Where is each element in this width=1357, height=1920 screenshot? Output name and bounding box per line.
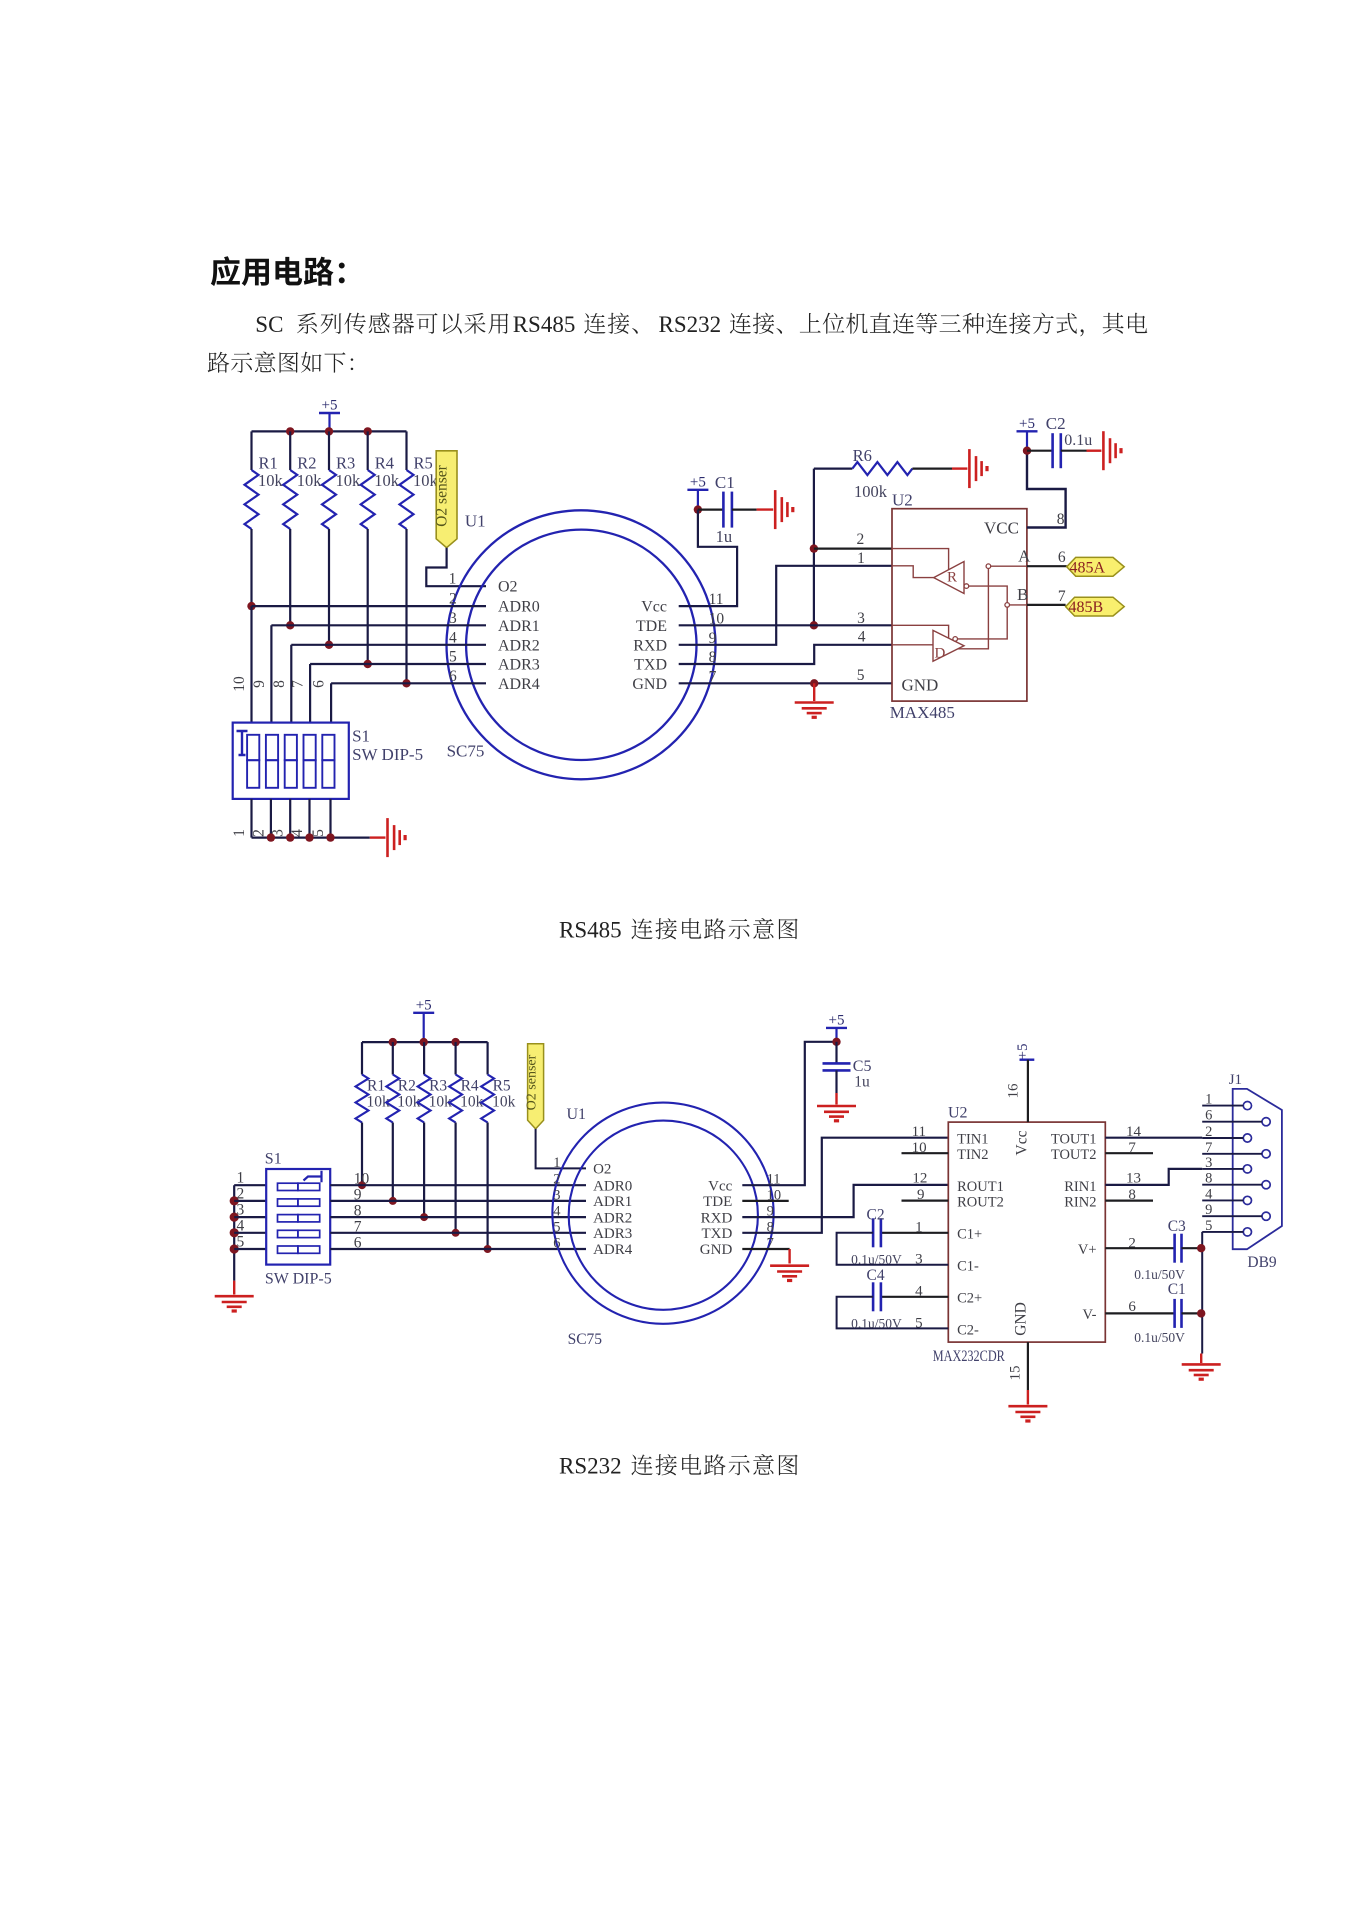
svg-text:2: 2 xyxy=(237,1185,245,1202)
pin labels U1 left xyxy=(498,579,540,693)
pin numbers U2 right xyxy=(1126,1124,1142,1315)
junction dot R5 to ADR4 row xyxy=(402,679,410,687)
svg-text:ADR4: ADR4 xyxy=(498,676,540,693)
resistor R2 10k xyxy=(283,431,322,625)
pin number 16 (rotated) xyxy=(1006,1083,1022,1099)
svg-text:U1: U1 xyxy=(567,1106,587,1123)
power +5 (top of RS485 pull-ups) xyxy=(319,398,340,432)
svg-text:10: 10 xyxy=(912,1140,927,1156)
svg-text:1: 1 xyxy=(1205,1092,1212,1108)
svg-text:R5: R5 xyxy=(493,1078,511,1095)
svg-text:O2: O2 xyxy=(498,579,518,596)
svg-text:+5: +5 xyxy=(829,1012,845,1028)
power +5 (C5) xyxy=(826,1012,847,1041)
svg-text:GND: GND xyxy=(1013,1302,1030,1336)
U2 GND label (rotated) xyxy=(1013,1302,1030,1336)
svg-text:SC: SC xyxy=(255,312,283,337)
wire U2 pin 15 to ground xyxy=(1027,1342,1029,1404)
svg-text:10k: 10k xyxy=(297,471,323,490)
svg-text:2: 2 xyxy=(857,531,865,548)
resistor R4 10k xyxy=(361,431,400,664)
svg-text:4: 4 xyxy=(858,628,866,645)
svg-text:C1-: C1- xyxy=(957,1259,979,1275)
label SW DIP-5 (RS232) xyxy=(265,1270,332,1287)
caption RS485 连接电路示意图 xyxy=(559,918,798,943)
pin numbers 11-7 (U1 right, RS232) xyxy=(767,1172,782,1252)
power +5 (C2) xyxy=(1017,416,1038,451)
U2 right pin labels xyxy=(1051,1132,1097,1324)
svg-text:SW DIP-5: SW DIP-5 xyxy=(352,745,423,764)
wire RXD to U2 ROUT1 (RS232) xyxy=(742,1185,948,1217)
svg-text:SC75: SC75 xyxy=(568,1331,603,1348)
capacitor C5 1u xyxy=(823,1042,872,1105)
designator U2 xyxy=(892,490,913,509)
switch S1 SW DIP-5 xyxy=(233,723,349,799)
paragraph line 1 xyxy=(255,312,1147,337)
U2 internal bubbles xyxy=(953,564,1010,641)
pin labels U1 left (RS232) xyxy=(593,1161,633,1258)
junction dot GND row xyxy=(810,679,818,687)
IC U1 sensor circle SC75 xyxy=(447,510,716,779)
wire GND row to U2 pin 5 xyxy=(679,682,892,684)
paragraph line 2 xyxy=(208,351,354,372)
svg-text:16: 16 xyxy=(1006,1083,1022,1099)
junction dot C1/+5 xyxy=(694,505,702,513)
svg-text:DB9: DB9 xyxy=(1247,1254,1277,1271)
svg-text:5: 5 xyxy=(857,667,865,684)
svg-text:R1: R1 xyxy=(259,454,278,473)
svg-text:ADR3: ADR3 xyxy=(593,1226,632,1242)
svg-text:5: 5 xyxy=(449,649,457,666)
junction dot R5 (RS232) xyxy=(484,1245,492,1253)
U2 internal wiring xyxy=(892,549,1027,649)
wire U2 pin A to 485A xyxy=(1027,549,1067,566)
wire +5 bus xyxy=(252,430,407,432)
svg-text:10k: 10k xyxy=(374,471,400,490)
svg-text:RXD: RXD xyxy=(633,637,667,654)
svg-text:TDE: TDE xyxy=(703,1194,732,1210)
ground (C3/C1) xyxy=(1182,1364,1221,1379)
svg-text:7: 7 xyxy=(1128,1140,1136,1156)
svg-text:3: 3 xyxy=(1205,1155,1212,1171)
svg-text:3: 3 xyxy=(857,610,865,627)
designator U2 (RS232) xyxy=(948,1105,968,1122)
svg-text:12: 12 xyxy=(912,1171,927,1187)
wires S1 bottom pins to ground bus xyxy=(252,799,331,838)
wire ground bus under S1 xyxy=(252,836,386,838)
capacitor C3 0.1u/50V xyxy=(1105,1218,1201,1282)
ground (U1 GND RS232) xyxy=(770,1266,809,1281)
wire U1 TDE stub (RS232) xyxy=(742,1200,788,1202)
svg-text:R: R xyxy=(947,570,957,586)
designator U1 xyxy=(465,512,486,531)
svg-text:6: 6 xyxy=(449,668,457,685)
wire U1 Vcc to +5 (RS232) xyxy=(742,1042,836,1185)
svg-text:1u: 1u xyxy=(716,527,733,546)
sensor flag O2 senser xyxy=(434,451,457,548)
pin number 15 (rotated) xyxy=(1008,1366,1024,1381)
svg-text:C2: C2 xyxy=(867,1207,885,1224)
port 485A xyxy=(1067,557,1125,576)
wire U2 TOUT1 to DB9 pin 2 xyxy=(1105,1137,1202,1139)
U2 left pin labels xyxy=(957,1132,1004,1339)
svg-text:ROUT2: ROUT2 xyxy=(957,1194,1004,1210)
svg-text:VCC: VCC xyxy=(984,519,1019,538)
wire U1 GND (RS232) xyxy=(742,1249,789,1264)
power +5 (U2 pin 16) xyxy=(1015,1044,1034,1060)
resistor R1 10k (RS232) xyxy=(356,1042,390,1185)
resistor R5 10k (RS232) xyxy=(481,1042,515,1249)
wire TXD to U2 pin 4 xyxy=(679,645,892,664)
svg-text:ADR2: ADR2 xyxy=(498,637,540,654)
wire U2 pin 8 to +5/C2 xyxy=(1027,451,1066,528)
svg-text:RIN1: RIN1 xyxy=(1064,1179,1096,1195)
svg-text:TOUT1: TOUT1 xyxy=(1051,1132,1097,1148)
wire DB9 pin5 / C3 / C1 to ground xyxy=(1201,1232,1202,1363)
heading 应用电路： xyxy=(211,256,345,286)
svg-text:9: 9 xyxy=(917,1187,925,1203)
svg-text:C2: C2 xyxy=(1046,414,1066,433)
sensor flag O2 senser (RS232) xyxy=(525,1044,544,1129)
svg-text:RIN2: RIN2 xyxy=(1064,1194,1096,1210)
resistor R3 10k xyxy=(322,431,361,644)
svg-text:10: 10 xyxy=(231,676,248,692)
svg-text:C3: C3 xyxy=(1168,1218,1186,1235)
svg-text:B: B xyxy=(1017,585,1028,604)
junction dot C2 xyxy=(1023,447,1031,455)
svg-text:9: 9 xyxy=(251,680,268,688)
svg-text:ADR3: ADR3 xyxy=(498,657,540,674)
svg-text:Vcc: Vcc xyxy=(1013,1130,1030,1155)
svg-text:C2-: C2- xyxy=(957,1322,979,1338)
svg-text:C1: C1 xyxy=(1168,1281,1186,1298)
wire U2 TOUT2 stub xyxy=(1105,1152,1153,1154)
svg-text:MAX485: MAX485 xyxy=(890,703,955,722)
svg-text:R2: R2 xyxy=(398,1078,416,1095)
svg-text:U2: U2 xyxy=(892,490,913,509)
svg-text:8: 8 xyxy=(271,680,288,688)
U2 internal receiver R triangle xyxy=(934,562,964,594)
svg-text:R4: R4 xyxy=(461,1078,479,1095)
svg-text:GND: GND xyxy=(902,676,939,695)
svg-text:14: 14 xyxy=(1126,1124,1142,1140)
wire O2 flag to pin 1 (RS232) xyxy=(536,1129,586,1169)
svg-text:1: 1 xyxy=(857,550,865,567)
svg-text:ADR1: ADR1 xyxy=(498,618,540,635)
wire RXD to U2 pin 1 xyxy=(679,566,892,645)
pin number 8 xyxy=(1057,511,1065,528)
svg-text:7: 7 xyxy=(1058,588,1066,605)
svg-text:RS485: RS485 xyxy=(513,312,576,337)
junction dots R6 vertical xyxy=(810,544,818,629)
svg-text:3: 3 xyxy=(553,1187,560,1203)
svg-text:TIN2: TIN2 xyxy=(957,1147,988,1163)
wire R6 to U2 pins 2,3 xyxy=(813,469,815,626)
svg-text:5: 5 xyxy=(237,1234,245,1251)
svg-text:11: 11 xyxy=(912,1124,926,1140)
svg-text:RXD: RXD xyxy=(701,1210,733,1226)
svg-text:SC75: SC75 xyxy=(447,742,485,761)
svg-text:1u: 1u xyxy=(854,1074,870,1091)
svg-text:RS485: RS485 xyxy=(559,918,622,943)
svg-text:TIN1: TIN1 xyxy=(957,1132,988,1148)
capacitor C2 0.1u xyxy=(1027,414,1101,468)
svg-text:C1+: C1+ xyxy=(957,1227,982,1243)
svg-text:2: 2 xyxy=(449,591,457,608)
wires DIP to U1 ADR rows (RS232) xyxy=(330,1185,586,1249)
svg-text:7: 7 xyxy=(1205,1140,1212,1156)
svg-text:C2+: C2+ xyxy=(957,1291,982,1307)
wire O2 sensor flag to pin 1 xyxy=(426,548,486,587)
svg-text:2: 2 xyxy=(553,1172,560,1188)
label SC75 (RS232) xyxy=(568,1331,603,1348)
capacitor C1 1u xyxy=(698,473,773,546)
svg-text:C5: C5 xyxy=(853,1058,872,1075)
resistor R5 10k xyxy=(400,431,439,683)
junction dot R1 to ADR0 row xyxy=(247,602,255,610)
pin number 1 (U1 O2) xyxy=(449,571,457,588)
capacitor C1 0.1u/50V (RS232) xyxy=(1105,1281,1201,1345)
pin numbers 10 9 8 7 6 (S1 top, rotated) xyxy=(231,676,328,692)
ground (C5) xyxy=(817,1106,856,1121)
wire S1 common bus (RS232) xyxy=(233,1185,235,1294)
junction dots C3/C1 xyxy=(1197,1244,1205,1318)
svg-text:ADR1: ADR1 xyxy=(593,1194,632,1210)
svg-text:+5: +5 xyxy=(1015,1044,1031,1060)
svg-text:3: 3 xyxy=(237,1202,245,1219)
svg-text:C4: C4 xyxy=(867,1267,885,1284)
svg-text:10k: 10k xyxy=(258,471,284,490)
wire ADR3 row xyxy=(310,663,486,665)
svg-text:9: 9 xyxy=(1205,1202,1212,1218)
svg-text:10k: 10k xyxy=(336,471,362,490)
IC U1 sensor circle SC75 (RS232) xyxy=(552,1103,773,1324)
port 485B xyxy=(1066,597,1125,616)
U2 internal driver D triangle xyxy=(933,630,964,661)
wire ADR1 row xyxy=(271,624,486,626)
svg-text:5: 5 xyxy=(1205,1218,1212,1234)
svg-text:1: 1 xyxy=(237,1170,245,1187)
resistor R1 10k xyxy=(245,431,284,606)
svg-text:3: 3 xyxy=(449,610,457,627)
svg-text:+5: +5 xyxy=(690,474,706,490)
svg-text:0.1u: 0.1u xyxy=(1064,432,1092,449)
svg-text:TXD: TXD xyxy=(701,1226,732,1242)
svg-text:J1: J1 xyxy=(1229,1072,1242,1088)
ground (C1) xyxy=(775,490,793,529)
svg-text:0.1u/50V: 0.1u/50V xyxy=(851,1252,902,1267)
capacitor C4 0.1u/50V xyxy=(837,1267,949,1331)
ground (S1 RS232) xyxy=(215,1296,254,1311)
wire U2 RIN2 stub xyxy=(1105,1199,1153,1201)
svg-text:6: 6 xyxy=(1058,549,1066,566)
wire ADR0 row xyxy=(252,605,487,607)
svg-text:C1: C1 xyxy=(715,473,735,492)
svg-text:S1: S1 xyxy=(352,726,370,745)
designator S1 (RS232) xyxy=(265,1150,282,1167)
svg-text:4: 4 xyxy=(237,1217,245,1234)
pin labels U2 (VCC, A, B, GND) xyxy=(902,519,1032,695)
svg-text:S1: S1 xyxy=(265,1150,282,1167)
svg-text:+5: +5 xyxy=(322,398,338,414)
svg-text:13: 13 xyxy=(1126,1171,1141,1187)
svg-text:R1: R1 xyxy=(367,1078,385,1095)
svg-text:1: 1 xyxy=(231,829,248,837)
svg-text:2: 2 xyxy=(1205,1124,1212,1140)
junction dots S1 bus xyxy=(230,1196,239,1253)
resistor R4 10k (RS232) xyxy=(449,1042,483,1233)
svg-text:485A: 485A xyxy=(1070,559,1106,576)
designator U1 (RS232) xyxy=(567,1106,587,1123)
wire U2 pin 16 xyxy=(1027,1060,1029,1122)
label MAX232CDR xyxy=(933,1348,1005,1365)
svg-text:A: A xyxy=(1018,547,1031,566)
svg-text:GND: GND xyxy=(632,676,667,693)
svg-text:U2: U2 xyxy=(948,1105,968,1122)
wire U2 TIN2 stub xyxy=(902,1152,949,1154)
pin labels U1 right (RS232) xyxy=(700,1178,733,1258)
svg-text:D: D xyxy=(935,646,946,662)
svg-text:ADR4: ADR4 xyxy=(593,1242,633,1258)
pin labels U1 right xyxy=(632,599,667,693)
svg-text:O2 senser: O2 senser xyxy=(525,1054,540,1110)
resistor R2 10k (RS232) xyxy=(386,1042,420,1201)
svg-text:1: 1 xyxy=(449,571,457,588)
svg-text:R4: R4 xyxy=(375,454,394,473)
power +5 (top of RS232 pull-ups) xyxy=(413,997,434,1042)
pin numbers 10 9 8 7 6 (rows, RS232) xyxy=(354,1171,370,1252)
svg-text:15: 15 xyxy=(1008,1366,1024,1381)
svg-text:O2: O2 xyxy=(593,1161,611,1177)
wire TXD to U2 TIN1 (RS232) xyxy=(742,1138,948,1233)
junction dot C5 xyxy=(832,1038,840,1046)
caption RS232 连接电路示意图 xyxy=(559,1454,798,1479)
wire U2 RIN1 to DB9 pin 3 xyxy=(1105,1169,1202,1185)
wire ADR4 row xyxy=(331,682,486,684)
svg-text:2: 2 xyxy=(250,829,267,837)
ground (S1 bus) xyxy=(388,818,406,857)
svg-text:MAX232CDR: MAX232CDR xyxy=(933,1348,1005,1365)
resistor R3 10k (RS232) xyxy=(418,1042,452,1217)
svg-text:U1: U1 xyxy=(465,512,486,531)
svg-text:Vcc: Vcc xyxy=(708,1178,732,1194)
wires U1 ADR rows down to DIP switch S1 xyxy=(252,606,332,723)
pin numbers 1-6 (U1 left, RS232) xyxy=(553,1155,561,1252)
svg-text:4: 4 xyxy=(1205,1186,1213,1202)
svg-text:V+: V+ xyxy=(1078,1242,1097,1258)
svg-text:TXD: TXD xyxy=(634,657,667,674)
designator S1 / SW DIP-5 xyxy=(352,726,423,764)
svg-text:6: 6 xyxy=(1205,1108,1212,1124)
junction dot R3 (RS232) xyxy=(420,1213,428,1221)
pin numbers U2 left xyxy=(912,1124,928,1331)
svg-text:ADR2: ADR2 xyxy=(593,1210,632,1226)
junction dots ground bus xyxy=(267,833,335,841)
svg-text:0.1u/50V: 0.1u/50V xyxy=(1134,1267,1185,1282)
wire +5 bus (RS232) xyxy=(362,1041,488,1043)
label DB9 xyxy=(1247,1254,1277,1271)
ground (C2) xyxy=(1103,431,1121,470)
svg-text:1: 1 xyxy=(553,1155,560,1171)
svg-text:8: 8 xyxy=(1128,1187,1136,1203)
junction dot R2 to ADR1 row xyxy=(286,621,294,629)
pin numbers 1-5 (S1 left) xyxy=(237,1170,245,1251)
pin numbers 11-7 (U1 right) xyxy=(709,591,725,685)
svg-text:R2: R2 xyxy=(297,454,316,473)
svg-text:4: 4 xyxy=(449,629,457,646)
svg-text:R3: R3 xyxy=(336,454,355,473)
power +5 (C1) xyxy=(687,474,708,509)
svg-text:TDE: TDE xyxy=(636,618,667,635)
svg-text:R6: R6 xyxy=(853,446,872,465)
svg-text:6: 6 xyxy=(553,1236,560,1252)
junction dot R1 (RS232) xyxy=(358,1181,366,1189)
svg-text:ROUT1: ROUT1 xyxy=(957,1179,1004,1195)
svg-text:V-: V- xyxy=(1083,1307,1097,1323)
wires DB9 pin stubs xyxy=(1202,1106,1262,1232)
junction dot R2 (RS232) xyxy=(389,1197,397,1205)
svg-text:+5: +5 xyxy=(416,997,432,1013)
svg-text:8: 8 xyxy=(1205,1171,1212,1187)
wire U2 pin B to 485B xyxy=(1027,588,1066,605)
wires S1 left pins xyxy=(234,1185,266,1249)
ground (U1/U2 GND) xyxy=(795,683,834,717)
svg-text:100k: 100k xyxy=(854,482,888,501)
svg-text:R3: R3 xyxy=(429,1078,447,1095)
junction bus dots (RS232) xyxy=(389,1038,460,1046)
connector J1 DB9 xyxy=(1233,1089,1282,1249)
svg-text:0.1u/50V: 0.1u/50V xyxy=(851,1316,902,1331)
svg-text:RS232: RS232 xyxy=(559,1454,622,1479)
junction bus dots xyxy=(286,427,372,435)
svg-text:485B: 485B xyxy=(1069,599,1104,616)
U2 Vcc label (rotated) xyxy=(1013,1130,1030,1155)
svg-text:0.1u/50V: 0.1u/50V xyxy=(1134,1330,1185,1345)
pin numbers DB9 xyxy=(1205,1092,1213,1234)
svg-text:5: 5 xyxy=(553,1219,560,1235)
resistor R6 100k xyxy=(814,446,968,501)
wire U2 ROUT2 stub xyxy=(902,1199,949,1201)
wire TDE row to U2 pin 3 xyxy=(679,624,892,626)
ground (U2 pin 15) xyxy=(1008,1406,1047,1421)
svg-text:ADR0: ADR0 xyxy=(498,599,540,616)
svg-text:Vcc: Vcc xyxy=(641,599,667,616)
junction dot R4 to ADR3 row xyxy=(364,660,372,668)
svg-text:4: 4 xyxy=(553,1204,561,1220)
junction dot R3 to ADR2 row xyxy=(325,641,333,649)
svg-text:ADR0: ADR0 xyxy=(593,1178,632,1194)
label MAX485 xyxy=(890,703,955,722)
svg-text:RS232: RS232 xyxy=(659,312,722,337)
wire ADR2 row xyxy=(291,644,486,646)
svg-text:SW DIP-5: SW DIP-5 xyxy=(265,1270,332,1287)
label SC75 xyxy=(447,742,485,761)
svg-text:6: 6 xyxy=(311,680,328,688)
capacitor C2 0.1u/50V xyxy=(837,1207,949,1268)
IC U2 MAX232CDR box xyxy=(948,1122,1105,1342)
svg-text:+5: +5 xyxy=(1019,416,1035,432)
wire U2 pin 2 xyxy=(814,547,892,549)
svg-text:TOUT2: TOUT2 xyxy=(1051,1147,1097,1163)
junction dot R4 (RS232) xyxy=(452,1229,460,1237)
svg-text:R5: R5 xyxy=(414,454,433,473)
wire +5/C1 to U1 Vcc pin 11 xyxy=(679,510,737,606)
svg-text:7: 7 xyxy=(290,680,307,688)
svg-text:O2 senser: O2 senser xyxy=(434,464,451,526)
svg-text:GND: GND xyxy=(700,1242,733,1258)
switch S1 SW DIP-5 (RS232) xyxy=(266,1169,330,1265)
pin numbers 2-6 (U1 left) xyxy=(449,591,457,685)
